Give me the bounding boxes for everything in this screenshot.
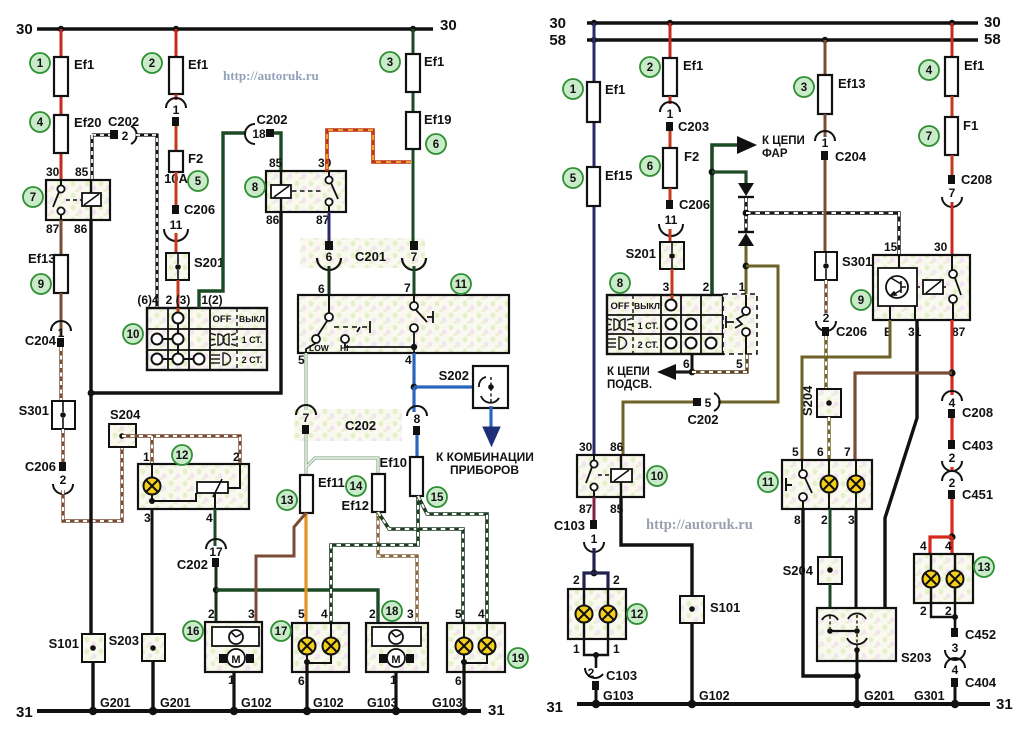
node ground link <box>88 390 95 397</box>
svg-text:C202: C202 <box>345 418 376 433</box>
lamp unit 17 box <box>292 623 349 672</box>
circled 4 <box>30 112 50 132</box>
svg-text:86: 86 <box>610 440 624 454</box>
svg-text:4: 4 <box>321 607 328 621</box>
svg-text:6: 6 <box>326 250 333 264</box>
svg-text:1: 1 <box>591 532 598 546</box>
svg-text:Ef1: Ef1 <box>683 58 703 73</box>
diode D2 <box>738 231 754 233</box>
relay U9 box <box>873 255 970 320</box>
bus 30 right <box>587 21 978 25</box>
wire green unit11-2 to S204b <box>829 509 832 557</box>
circled R7 <box>919 126 939 146</box>
svg-text:C202: C202 <box>687 412 718 427</box>
lamp unit 12 R box <box>568 589 626 639</box>
wire S201 to switch10 <box>177 280 180 312</box>
relay U8 box <box>266 171 346 212</box>
fuse Ef20 (4) <box>54 115 68 153</box>
ground G103 b <box>460 707 468 715</box>
svg-text:C451: C451 <box>962 487 993 502</box>
svg-text:3: 3 <box>407 607 414 621</box>
svg-text:C204: C204 <box>835 149 867 164</box>
wire red column B <box>175 29 178 57</box>
svg-text:31: 31 <box>488 702 505 719</box>
fuse Ef11 (13) <box>300 475 313 513</box>
connector C208 pin4 <box>942 391 962 401</box>
svg-text:К ЦЕПИ: К ЦЕПИ <box>607 366 650 378</box>
svg-text:1: 1 <box>228 673 235 687</box>
svg-text:3: 3 <box>952 641 959 655</box>
node lamps12 <box>591 570 598 577</box>
svg-text:8: 8 <box>252 182 259 194</box>
lamp 19b <box>479 638 496 655</box>
icon headlight <box>211 353 231 365</box>
svg-text:6: 6 <box>318 282 325 296</box>
svg-text:OFF: OFF <box>611 301 630 312</box>
svg-text:6: 6 <box>647 161 653 173</box>
svg-text:2: 2 <box>703 280 710 294</box>
svg-text:5: 5 <box>455 607 462 621</box>
svg-text:6: 6 <box>455 674 462 688</box>
wire brown column R3 <box>824 40 827 75</box>
node R1-30 <box>591 20 597 26</box>
svg-text:Ef13: Ef13 <box>838 76 865 91</box>
svg-text:16: 16 <box>187 626 200 638</box>
connector C202 pin8 <box>407 406 427 416</box>
node R3-58 <box>822 37 828 43</box>
fuse Ef13 R(3) <box>818 75 832 114</box>
lamp 13b <box>947 571 964 588</box>
svg-text:S301: S301 <box>842 254 872 269</box>
connector pin4 C404 <box>945 658 965 668</box>
wire red column R4 <box>951 23 954 57</box>
connector C208 pin7 <box>951 155 954 175</box>
wire black unit11-8 to S203 <box>803 509 857 676</box>
svg-text:7: 7 <box>926 131 932 143</box>
svg-text:19: 19 <box>512 653 525 665</box>
arrow to illumination circuit <box>676 370 692 373</box>
relay U8 switch <box>328 171 330 176</box>
circled 6 <box>426 134 446 154</box>
svg-text:C206: C206 <box>184 202 215 217</box>
svg-text:2: 2 <box>60 473 67 487</box>
resistor block12 <box>152 493 196 501</box>
lamp unit 12 box <box>138 464 249 509</box>
ground G201 R <box>853 700 861 708</box>
fuse F2 10A (5) <box>169 151 183 172</box>
svg-text:S204: S204 <box>110 407 141 422</box>
wire orange Ef11 to lamps17 <box>304 513 307 623</box>
lamp unit 13 box <box>914 554 973 603</box>
circled 8 R <box>610 273 630 293</box>
motor M18 <box>379 654 387 663</box>
wire C103-2 to ground <box>595 690 598 704</box>
splice S301 R <box>815 252 837 280</box>
svg-text:http://autoruk.ru: http://autoruk.ru <box>646 517 753 533</box>
icon parking lights 8 <box>606 319 633 331</box>
svg-text:58: 58 <box>549 32 566 49</box>
wire green zebra Ef10 to lamps17 <box>331 496 418 623</box>
svg-text:G301: G301 <box>914 689 945 703</box>
wire green to diode1 <box>712 172 746 183</box>
svg-text:2: 2 <box>949 476 956 490</box>
svg-text:30: 30 <box>549 15 566 32</box>
circled 7 <box>23 187 43 207</box>
svg-text:Ef1: Ef1 <box>74 57 94 72</box>
svg-text:10: 10 <box>651 471 664 483</box>
connector C206 pin2 <box>59 462 66 471</box>
svg-text:M: M <box>231 654 240 666</box>
ground G103 R <box>592 700 600 708</box>
wire red C208 to relay9-30 <box>951 202 954 255</box>
svg-text:C208: C208 <box>961 172 992 187</box>
svg-text:7: 7 <box>844 445 851 459</box>
lamp 11a <box>821 476 838 493</box>
svg-text:G201: G201 <box>864 689 895 703</box>
svg-text:2: 2 <box>122 129 129 143</box>
ground G301 <box>951 700 959 708</box>
svg-text:31: 31 <box>16 704 33 721</box>
relay U8 coil <box>271 185 291 198</box>
svg-text:9: 9 <box>38 279 44 291</box>
svg-text:8: 8 <box>414 412 421 426</box>
motor M16 <box>219 654 227 663</box>
svg-text:F2: F2 <box>188 151 203 166</box>
svg-text:11: 11 <box>170 218 183 232</box>
svg-text:2: 2 <box>573 573 580 587</box>
node diode feed <box>709 169 716 176</box>
bus 31 left <box>37 709 481 713</box>
svg-text:C204: C204 <box>25 333 57 348</box>
arrow to instrument cluster <box>489 406 492 428</box>
svg-text:1: 1 <box>667 107 674 121</box>
svg-text:S201: S201 <box>194 255 224 270</box>
svg-text:6: 6 <box>683 357 690 371</box>
band C201 <box>300 238 425 268</box>
svg-text:1: 1 <box>37 58 44 70</box>
svg-text:30: 30 <box>46 165 60 179</box>
ground G201 a <box>89 707 97 715</box>
svg-text:C452: C452 <box>965 627 996 642</box>
band C202 left lower <box>294 409 402 441</box>
svg-text:4: 4 <box>206 511 213 525</box>
svg-text:3: 3 <box>387 57 393 69</box>
svg-text:5: 5 <box>705 396 712 410</box>
splice S203 R <box>817 608 896 661</box>
svg-text:12: 12 <box>176 450 189 462</box>
fuse Ef15 (5) <box>587 167 600 206</box>
lamp 17a <box>299 638 316 655</box>
ground G102 b <box>303 707 311 715</box>
circled 13 <box>277 490 297 510</box>
wire olive zebra C206R to S204a <box>824 336 827 389</box>
svg-text:2: 2 <box>949 451 956 465</box>
svg-text:4: 4 <box>952 663 959 677</box>
wire black link to relay8-86 <box>91 212 281 393</box>
node 17 <box>304 659 310 665</box>
svg-text:87: 87 <box>46 222 60 236</box>
svg-text:S203: S203 <box>901 650 931 665</box>
svg-text:7: 7 <box>404 281 411 295</box>
wire blue C202-8 to Ef10 <box>415 435 418 457</box>
wire zebra S204 to lamp block 12 <box>122 436 240 464</box>
svg-text:2: 2 <box>613 573 620 587</box>
circled R4 <box>919 60 939 80</box>
svg-text:11: 11 <box>455 279 468 291</box>
switch8 lever part <box>723 294 757 354</box>
svg-text:87: 87 <box>952 325 966 339</box>
svg-text:85: 85 <box>269 156 283 170</box>
svg-text:S301: S301 <box>19 403 49 418</box>
wire zebra D1 to D2 <box>744 198 747 231</box>
svg-text:G103: G103 <box>367 696 398 710</box>
ground G102 R <box>688 700 696 708</box>
splice S101 R <box>680 596 704 623</box>
node diode out <box>743 263 750 270</box>
connector C204 pin1 <box>51 321 71 331</box>
wire green C202-18 <box>199 133 246 308</box>
relay9 switch <box>951 255 953 270</box>
svg-text:1: 1 <box>739 280 746 294</box>
svg-text:9: 9 <box>858 295 864 307</box>
svg-text:5: 5 <box>736 357 743 371</box>
wire red C451 to lamps13 <box>950 499 953 537</box>
dimmer switch 11 box <box>298 295 509 353</box>
svg-text:5: 5 <box>298 353 305 367</box>
wire black lamp12 to S203 <box>151 509 154 634</box>
fuse F2 R(6) <box>663 148 677 188</box>
fuse Ef1 R(1) <box>587 82 600 122</box>
wire green block12-4 to C202-17 <box>214 509 217 546</box>
wire orange-red to F2 <box>175 126 178 151</box>
relay U7 box <box>46 180 110 220</box>
svg-text:G102: G102 <box>699 689 730 703</box>
circled R3 <box>794 77 814 97</box>
svg-text:3: 3 <box>144 511 151 525</box>
svg-text:2: 2 <box>823 311 830 325</box>
wire lamps17 to ground <box>305 663 308 711</box>
circled 12 R <box>627 604 647 624</box>
wire C404 to ground <box>954 687 957 704</box>
fuse Ef1 R(2) <box>663 58 677 96</box>
svg-text:2: 2 <box>920 604 927 618</box>
svg-text:31: 31 <box>996 696 1013 713</box>
svg-text:4: 4 <box>926 65 933 77</box>
svg-text:1: 1 <box>58 326 65 340</box>
svg-text:7: 7 <box>303 411 310 425</box>
wire S101R to ground <box>690 623 693 704</box>
wire navy C103 to lamps12 <box>592 548 595 573</box>
svg-text:S101: S101 <box>710 600 740 615</box>
switch10 contacts <box>173 313 184 324</box>
svg-text:30: 30 <box>318 156 332 170</box>
svg-text:C202: C202 <box>256 112 287 127</box>
splice S201 <box>166 253 189 280</box>
diode D1 <box>738 183 754 196</box>
wire green S204b to S203 <box>829 584 832 612</box>
light switch 8 box <box>607 295 723 354</box>
connector C103 pin2 <box>595 655 598 668</box>
node bus30-A <box>58 26 64 32</box>
connector C202 pin18 <box>245 124 255 144</box>
svg-text:13: 13 <box>978 562 991 574</box>
splice S101 <box>82 634 105 662</box>
wire zebra C206 to S204 <box>63 447 122 521</box>
connector C206 pin11 <box>172 205 179 214</box>
circled 19 <box>508 648 528 668</box>
svg-text:12: 12 <box>631 609 644 621</box>
wire zebra S301R to C206R <box>824 280 827 313</box>
wire red column A <box>60 29 63 180</box>
node bus30-B <box>173 26 179 32</box>
wire C201-6 to switch11 <box>328 266 331 295</box>
svg-text:15: 15 <box>884 240 898 254</box>
wire olive zebra S204a to lamps11 <box>827 417 830 460</box>
wiper motor 16 box <box>205 622 262 672</box>
svg-text:6: 6 <box>817 445 824 459</box>
splice S203 <box>142 634 165 661</box>
svg-text:31: 31 <box>546 699 563 716</box>
splice S202 box <box>473 366 508 408</box>
wire C201-7 to switch11 <box>413 266 416 295</box>
svg-text:C201: C201 <box>355 249 386 264</box>
svg-text:G103: G103 <box>603 689 634 703</box>
svg-text:3: 3 <box>848 513 855 527</box>
circled 9 <box>31 274 51 294</box>
wire zebra to relay9-15 <box>746 213 899 255</box>
circled 14 <box>346 476 366 496</box>
svg-text:S101: S101 <box>49 636 79 651</box>
svg-text:Ef1: Ef1 <box>964 58 984 73</box>
node R2-30 <box>667 20 673 26</box>
wire green zebra Ef10 to lamps19 <box>418 496 487 623</box>
switch11 left lever <box>328 295 330 313</box>
svg-text:1: 1 <box>573 642 580 656</box>
ground G103 a <box>392 707 400 715</box>
svg-text:14: 14 <box>350 481 363 493</box>
wire red S201R to switch8 <box>671 269 674 295</box>
circled R1 <box>563 79 583 99</box>
gauge 18 <box>372 627 421 646</box>
connector C201 pin7 <box>410 241 418 250</box>
bus 58 right <box>587 38 978 42</box>
wire sw8 pin6 down <box>691 354 694 372</box>
svg-text:C206: C206 <box>25 459 56 474</box>
circled 17 <box>271 621 291 641</box>
svg-text:30: 30 <box>579 440 593 454</box>
svg-text:2: 2 <box>821 513 828 527</box>
node 12 <box>149 498 155 504</box>
svg-text:G103: G103 <box>432 696 463 710</box>
svg-text:2 СТ.: 2 СТ. <box>638 340 659 350</box>
svg-text:ФАР: ФАР <box>762 148 788 160</box>
light switch 10 box <box>147 308 267 370</box>
svg-text:7: 7 <box>949 186 956 200</box>
wire brown to lamps11-7 <box>855 373 952 460</box>
wire black relay9-31 to S203 <box>858 320 917 648</box>
splice S204 a <box>817 389 841 417</box>
wire motor18 to ground <box>394 672 397 711</box>
svg-text:5: 5 <box>570 173 577 185</box>
connector C206 pin11 R <box>669 188 672 200</box>
svg-text:ПОДСВ.: ПОДСВ. <box>607 379 652 391</box>
wire pale green C202-7 to Ef11 Ef12 <box>306 434 378 475</box>
svg-text:S202: S202 <box>439 368 469 383</box>
svg-text:7: 7 <box>30 192 36 204</box>
wire green feed to motor18 <box>216 590 378 623</box>
wire olive D2 to sw8-1 <box>745 246 748 307</box>
wire brown Ef13 to C204 <box>60 293 63 337</box>
svg-text:C203: C203 <box>678 119 709 134</box>
svg-text:2 СТ.: 2 СТ. <box>242 355 263 365</box>
wire navy column R1 <box>593 23 596 455</box>
svg-text:Ef1: Ef1 <box>605 82 625 97</box>
lamp 17b <box>323 638 340 655</box>
svg-text:4: 4 <box>478 607 485 621</box>
node bus30-C <box>410 26 416 32</box>
wire brown C204R to S301R <box>824 160 827 252</box>
node pin4 <box>411 384 418 391</box>
svg-text:11: 11 <box>762 477 775 489</box>
wire motor16 to ground <box>232 672 235 711</box>
svg-text:Ef20: Ef20 <box>74 115 101 130</box>
fuse Ef19 (6) <box>406 112 420 149</box>
svg-text:10: 10 <box>127 329 140 341</box>
wire red-orange zebra Ef19 to relay8-30 <box>327 130 411 171</box>
splice S204 <box>109 424 136 447</box>
svg-text:C103: C103 <box>554 518 585 533</box>
circled 11 R <box>758 472 778 492</box>
wire zebra brown C204 to S301 <box>59 347 62 401</box>
relay9 transistor <box>878 268 917 306</box>
switch11 right lever <box>413 295 415 302</box>
circled 15 <box>427 487 447 507</box>
svg-text:1: 1 <box>570 84 577 96</box>
wire tan zebra Ef12 to motor18 <box>378 512 417 623</box>
wire brown Ef11 to motor16 <box>256 513 306 622</box>
wire C202-17 down to motor16 <box>215 567 218 622</box>
svg-text:13: 13 <box>281 495 294 507</box>
svg-text:8: 8 <box>617 278 624 290</box>
circled 9 <box>851 290 871 310</box>
circled 18 <box>382 601 402 621</box>
node lamps13 gnd <box>952 614 958 620</box>
svg-text:(6)4: (6)4 <box>137 293 159 307</box>
svg-text:17: 17 <box>275 626 288 638</box>
svg-text:30: 30 <box>984 14 1001 31</box>
relay10 switch <box>593 455 595 460</box>
node 19 <box>461 659 467 665</box>
svg-text:Ef19: Ef19 <box>424 112 451 127</box>
fuse Ef1 (1) <box>54 57 68 96</box>
wire red to lamp13b <box>950 537 953 554</box>
svg-text:К КОМБИНАЦИИ: К КОМБИНАЦИИ <box>436 450 534 464</box>
svg-text:3: 3 <box>248 607 255 621</box>
icon parking lights <box>210 334 237 346</box>
wire red relay9-87 down <box>950 320 953 395</box>
connector C203 pin1 <box>669 96 672 104</box>
svg-text:G201: G201 <box>100 696 131 710</box>
lamp-switch unit 11 R box <box>782 460 872 509</box>
connector col B pin1 <box>175 94 178 100</box>
circled 5 <box>188 171 208 191</box>
svg-text:2: 2 <box>149 58 155 70</box>
node R1-58 <box>591 37 597 43</box>
svg-text:1(2): 1(2) <box>201 293 222 307</box>
wire black unit11-3 to S203 <box>855 509 858 612</box>
svg-text:C404: C404 <box>965 675 997 690</box>
wire lamps19 to ground <box>462 663 465 711</box>
